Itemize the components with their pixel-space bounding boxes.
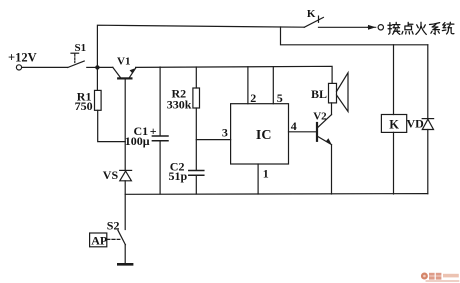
wire V1 base down (124, 79, 126, 170)
output terminal circle (378, 25, 383, 30)
wire K to output (319, 26, 368, 28)
pin label 1 (263, 166, 269, 180)
wire pin 2 (247, 67, 249, 104)
svg-text:100μ: 100μ (125, 134, 150, 148)
pin label 5 (277, 91, 283, 105)
svg-text:VD: VD (407, 117, 425, 131)
resistor R2 (167, 67, 200, 111)
svg-text:51p: 51p (169, 169, 188, 183)
wire drop to relay coil K (393, 45, 395, 115)
wire VD to bus (427, 130, 429, 194)
transistor V1 (97, 55, 135, 78)
wire input to S1 (22, 66, 68, 68)
svg-text:+: + (150, 124, 157, 138)
wire relay coil to bus (393, 132, 395, 194)
relay coil K (381, 115, 406, 133)
svg-text:K: K (307, 8, 316, 20)
svg-text:AP: AP (91, 234, 107, 248)
svg-text:S2: S2 (107, 218, 120, 232)
wire pin 4 (289, 131, 317, 133)
wire pin 5 (272, 67, 274, 104)
terminal +12V (8, 51, 37, 71)
svg-text:330k: 330k (167, 97, 192, 111)
node junction at S1/R1/V1 (95, 65, 99, 69)
svg-text:K: K (389, 118, 399, 132)
svg-text:1: 1 (263, 166, 269, 180)
wire V2 emitter to bus (331, 145, 333, 194)
resistor R1 (75, 69, 102, 113)
svg-text:VS: VS (103, 168, 119, 182)
wire V2 collector to BL (331, 103, 333, 115)
svg-text:+12V: +12V (8, 51, 37, 65)
pin label 4 (291, 119, 297, 133)
pin label 3 (222, 126, 228, 140)
wire pin 1 (257, 164, 259, 194)
capacitor C1 (125, 67, 168, 194)
svg-text:V2: V2 (313, 110, 327, 122)
IC U1 (231, 104, 289, 164)
wire branch to relay rail (281, 27, 428, 45)
wire VS to bus junction and S2 (124, 181, 126, 230)
svg-text:S1: S1 (75, 42, 87, 54)
svg-text:IC: IC (256, 128, 272, 143)
svg-text:V1: V1 (117, 55, 130, 67)
wire R1 to base node (98, 110, 126, 141)
pin label 2 (250, 91, 256, 105)
watermark logo (421, 273, 459, 282)
wire pin 3 (196, 139, 230, 141)
svg-text:750: 750 (75, 99, 93, 113)
svg-text:3: 3 (222, 126, 228, 140)
relay contact K (304, 8, 323, 27)
label 接点火系统 (388, 22, 454, 34)
wire S2 to ground (124, 245, 126, 264)
switch S2 (107, 218, 126, 244)
output arrow (368, 25, 376, 30)
wire R2 to pin3 node (195, 108, 197, 170)
wire top rail to K (97, 25, 304, 67)
transistor V2 (313, 110, 332, 145)
wire drop to VD (427, 45, 429, 119)
zener diode VS (103, 168, 132, 182)
box AP (90, 233, 120, 248)
switch S1 (68, 42, 96, 68)
svg-text:5: 5 (277, 91, 283, 105)
wire main rail V1 emitter to BL (136, 66, 333, 83)
svg-text:2: 2 (250, 91, 256, 105)
ground (118, 263, 132, 266)
bus wire bottom (125, 193, 428, 196)
speaker BL (311, 73, 348, 112)
capacitor C2 (169, 160, 204, 194)
diode VD (407, 117, 434, 131)
svg-text:BL: BL (311, 87, 327, 101)
svg-text:4: 4 (291, 119, 297, 133)
